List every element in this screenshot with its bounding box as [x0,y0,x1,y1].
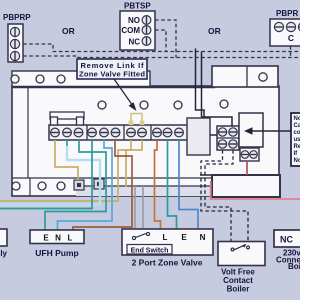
bottom right box [212,175,280,197]
dashed wire PBP C to bus [290,46,292,58]
body hole 4 [220,100,228,108]
svg-text:UFH Pump: UFH Pump [35,248,78,258]
body hole 3 [174,101,182,109]
NC box [274,230,310,271]
UFH pump box [30,230,84,258]
wire tan C1 exit left [0,140,131,201]
svg-text:Ca: Ca [294,123,301,129]
2x2 terminal block [217,126,239,150]
wire teal A2 exit left [66,140,68,147]
wire brown from 2 screw block [246,161,248,175]
dashed wire block to volt free left [205,150,233,241]
bottom flange hole 1 [12,182,20,190]
bottom flange strip and cable rail [12,178,212,196]
svg-text:Zone Valve Fitted: Zone Valve Fitted [79,70,145,79]
svg-text:Remove Link If: Remove Link If [81,61,144,70]
volt free contact boiler box [218,242,265,294]
supply box bottom left [0,229,8,258]
svg-text:C: C [288,33,294,43]
2 port zone valve box [122,229,213,268]
wire orange D1 to valve L [155,140,161,229]
black wire relay to block [210,134,217,136]
bottom flange hole 2 [38,182,46,190]
PBTSP box [120,2,155,51]
svg-text:N: N [200,233,206,242]
wire tan C2 to end switch [126,140,142,187]
svg-text:NC: NC [280,235,293,245]
svg-text:PBPRP: PBPRP [3,13,31,22]
svg-text:PBTSP: PBTSP [124,2,151,11]
svg-text:E: E [181,233,187,242]
svg-text:OR: OR [208,26,221,36]
mounting hole flange 3 [57,75,65,83]
cable clamp terminal 1 [74,180,84,190]
svg-text:Re: Re [294,144,301,150]
svg-text:E: E [43,234,49,243]
tan wire link over group C [129,114,145,126]
svg-text:OR: OR [62,26,75,36]
svg-text:NO: NO [128,16,140,25]
svg-text:No: No [294,116,301,122]
black wire W2 bus to terminal block [202,52,233,127]
svg-text:Boiler: Boiler [227,285,250,294]
raised box top-right [212,66,278,87]
svg-text:L: L [68,234,73,243]
dashed wire PBTSP NO [155,20,176,58]
red wire along bottom right [211,181,300,199]
svg-text:L: L [163,233,168,242]
svg-text:us: us [294,137,301,143]
strip screw terminals [51,128,184,137]
dashed wire from PBPRP middle terminal to bus 1 [23,44,300,52]
body inner line left [27,87,29,178]
svg-text:co: co [294,130,301,136]
bottom flange hole 3 [57,182,65,190]
PBPRP terminal block [3,13,31,62]
wire teal D2 to valve E [168,140,177,229]
white link bridge over group A [50,112,84,125]
mounting hole flange 2 [36,75,44,83]
svg-text:N: N [55,234,61,243]
remove link note box [77,59,147,79]
black wire W1 bus to relay [196,49,205,119]
wire teal B1 exit left [0,140,92,209]
svg-text:PBPR: PBPR [276,9,298,18]
svg-text:2 Port Zone Valve: 2 Port Zone Valve [132,258,203,268]
svg-text:NC: NC [128,38,140,47]
svg-text:No: No [294,158,301,164]
arrow from note box to tall connector [244,127,291,135]
2 screw block below tall box [240,148,259,161]
relay box U1 [187,118,210,155]
dashed bus wires [23,20,300,58]
svg-text:COM: COM [121,26,140,35]
mounting hole flange 1 [11,75,19,83]
dashed wire from PBPRP bottom terminal to bus 2 [23,56,300,58]
wire tan A1 to clamp1 [55,140,78,180]
svg-text:Boile: Boile [288,262,300,271]
wiring centre top flange [12,71,215,87]
tall connector box [239,113,263,147]
dashed wire PBTSP COM [155,30,166,52]
dashed wire block to volt free right [201,150,248,241]
body hole 1 [98,101,106,109]
wire blue D3 to valve N [179,140,198,229]
wiring centre backplate body [12,86,279,196]
wire brown B3 to UFH L [73,140,132,230]
PBP box top right [270,9,310,46]
arrow from note to link [114,79,137,111]
right edge note box [291,113,313,166]
svg-text:End Switch: End Switch [131,248,169,255]
wire grey to valve end switch [134,186,136,229]
body hole 2 [140,101,148,109]
wire teal A3 to UFH E [45,140,106,230]
svg-text:ly: ly [0,249,7,258]
cable clamp terminal 2 [94,179,104,189]
wire blue B2 to UFH N [58,140,113,230]
terminal strip [49,125,188,140]
